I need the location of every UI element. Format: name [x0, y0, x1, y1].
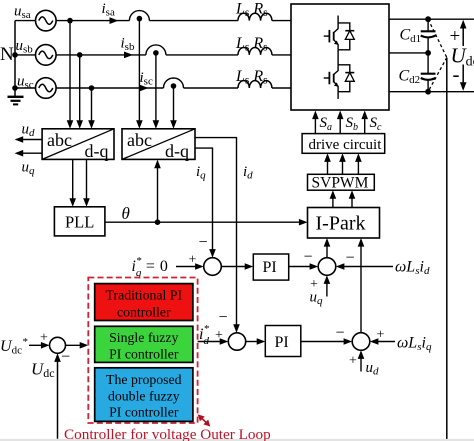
wire S3 to PI2	[246, 338, 266, 345]
inductor L_s R_s phase a label	[235, 1, 268, 20]
current sensor phase b	[146, 45, 166, 56]
svg-text:−: −	[304, 249, 313, 266]
junction dot theta	[155, 219, 161, 225]
label + (ud)	[349, 354, 357, 369]
label i_q* = 0	[132, 255, 168, 279]
wire PI2 to summer S4	[301, 338, 352, 345]
block traditional PI controller	[95, 284, 193, 321]
label u_d (S4)	[366, 360, 380, 378]
wire phase b	[56, 54, 291, 56]
wire theta line	[105, 219, 308, 226]
junction node c voltage tap	[89, 85, 95, 91]
capacitor Cd2	[421, 53, 436, 92]
svg-text:SVPWM: SVPWM	[312, 174, 369, 191]
inductor coil phase a	[238, 13, 272, 20]
wire iqref to summer	[176, 263, 204, 270]
PI block PI2	[265, 326, 301, 357]
wire idref to summer	[198, 338, 229, 345]
wire I-Park to SVPWM arrows	[330, 190, 356, 207]
svg-text:double fuzzy: double fuzzy	[108, 389, 180, 404]
capacitor Cd2 label	[399, 68, 421, 87]
svg-text:θ: θ	[122, 204, 130, 223]
node N label	[0, 44, 14, 65]
current sensor phase c	[164, 78, 184, 89]
I-Park block	[308, 208, 380, 239]
svg-text:abc: abc	[127, 130, 152, 150]
label - (PI1 out)	[304, 249, 313, 266]
controller dashed box	[88, 278, 197, 424]
wire phase a	[56, 20, 291, 22]
dashed sense link	[428, 19, 447, 92]
wire SVPWM to drive arrows	[324, 153, 362, 174]
abc/d-q block U2 (current)	[122, 129, 195, 161]
abc/d-q block U1 (voltage)	[42, 129, 114, 161]
svg-text:The proposed: The proposed	[106, 372, 182, 387]
label wLsiq	[397, 335, 432, 354]
label + (iqref)	[189, 253, 197, 268]
current i_sc label	[140, 70, 153, 88]
svg-text:PI controller: PI controller	[109, 347, 179, 362]
wire U1 to PLL left	[69, 159, 76, 206]
current i_sc arrow	[140, 85, 149, 92]
svg-text:drive circuit: drive circuit	[309, 137, 383, 153]
transistor T1 (upper IGBT)	[324, 16, 339, 50]
source u_sc label	[17, 73, 34, 91]
node N bus wire	[14, 21, 16, 97]
wire voltage tap b	[76, 55, 83, 129]
wire i_d from U2 to summer	[195, 138, 240, 333]
svg-text:controller: controller	[117, 305, 171, 320]
label U_dc (feedback)	[31, 360, 55, 381]
label u_d	[22, 122, 36, 140]
current i_sa arrow	[110, 17, 119, 24]
svg-text:−: −	[61, 349, 70, 366]
wire u_q output arrow	[15, 150, 42, 157]
wire current tap c	[170, 88, 177, 129]
label - (iq feedback)	[199, 234, 208, 251]
label theta	[122, 204, 130, 223]
label u_q	[22, 160, 36, 178]
inductor L_s R_s phase c label	[235, 68, 268, 87]
label S_c	[370, 115, 383, 133]
label i_d	[243, 164, 253, 182]
svg-text:PLL: PLL	[65, 213, 94, 232]
svg-text:d-q: d-q	[165, 141, 189, 161]
wire S2 up to I-Park	[324, 238, 331, 258]
summer S2	[318, 258, 336, 276]
AC source b	[15, 45, 56, 66]
summer S1	[204, 258, 222, 276]
wire midpoint of leg	[337, 50, 339, 65]
diode D1 (upper)	[338, 23, 354, 50]
svg-text:−: −	[346, 250, 355, 267]
label + (idref)	[215, 328, 223, 343]
wire drive to converter arrows	[312, 111, 368, 134]
svg-text:−: −	[336, 325, 345, 342]
svg-text:PI: PI	[275, 334, 289, 351]
summer S4	[352, 333, 370, 351]
label + (wLsiq)	[377, 328, 385, 343]
wire S5 to controller	[66, 342, 89, 349]
label - (wLsid)	[346, 250, 355, 267]
label i_d*	[199, 323, 209, 347]
wire DC- rail	[389, 91, 474, 93]
diode D2 (lower)	[338, 65, 354, 92]
wire wLsiq to S4	[370, 338, 395, 345]
PI block PI1	[253, 254, 288, 280]
wire U1 to PLL right	[83, 159, 90, 206]
source u_sa label	[14, 4, 31, 22]
svg-text:+: +	[215, 328, 223, 343]
wire S4 up to I-Park	[358, 238, 365, 333]
label - (Udc feedback)	[61, 349, 70, 366]
wire u_d into S4	[358, 350, 365, 371]
current sensor phase a	[129, 11, 149, 22]
svg-text:PI: PI	[263, 259, 277, 276]
wire bottom feedback (clipped at image edge)	[0, 439, 474, 441]
svg-text:−: −	[199, 234, 208, 251]
inductor coil phase c	[238, 81, 272, 88]
converter box	[291, 4, 389, 110]
block double fuzzy PI controller	[95, 368, 193, 422]
svg-text:Single fuzzy: Single fuzzy	[109, 330, 178, 345]
junction dot N phase b	[12, 52, 18, 58]
label wLsid	[395, 259, 430, 278]
wire PI1 to summer S2	[289, 263, 319, 270]
wire Udc feedback up into S5	[54, 353, 61, 439]
wire phase c	[56, 87, 291, 89]
svg-text:+: +	[349, 354, 357, 369]
summer S5	[50, 337, 66, 353]
source u_sb label	[16, 38, 34, 56]
caption Controller for voltage Outer Loop	[64, 426, 271, 441]
wire S1 to PI1	[221, 263, 253, 270]
junction dot DC-	[425, 89, 431, 95]
ground	[8, 97, 24, 105]
wire theta to U2 arrow	[154, 160, 161, 223]
svg-text:PI controller: PI controller	[109, 405, 179, 420]
current i_sb arrow	[124, 52, 133, 59]
capacitor Cd1	[421, 19, 436, 53]
label + (Udc top)	[450, 26, 461, 47]
inductor L_s R_s phase b label	[235, 35, 268, 54]
junction dot DC mid	[425, 50, 431, 56]
wire current tap b	[153, 55, 160, 129]
label i_q	[196, 164, 206, 182]
junction node b voltage tap	[77, 52, 83, 58]
wire Udc feedback down right side	[446, 58, 448, 440]
svg-text:N: N	[0, 44, 14, 65]
wire DC mid rail	[389, 52, 428, 54]
wire DC+ rail	[389, 18, 474, 20]
svg-text:I-Park: I-Park	[316, 213, 366, 235]
junction dot DC+	[425, 16, 431, 22]
label - (Udc bottom)	[453, 62, 460, 86]
svg-text:Traditional PI: Traditional PI	[106, 288, 183, 303]
label U_dc*	[0, 336, 28, 357]
summer S3	[228, 333, 245, 350]
wire i_q from U2 to summer	[195, 148, 216, 258]
junction node a voltage tap	[67, 18, 73, 24]
current i_sa label	[102, 1, 115, 19]
svg-text:d-q: d-q	[85, 141, 109, 161]
inductor coil phase b	[238, 48, 272, 55]
label u_q (S2)	[310, 290, 324, 308]
wire emitter stub lower	[337, 92, 339, 99]
Udc measure arrow down	[460, 65, 467, 91]
block single fuzzy PI controller	[95, 326, 193, 362]
svg-text:Controller for voltage Outer L: Controller for voltage Outer Loop	[64, 426, 271, 441]
label U_dc (right)	[451, 44, 474, 70]
wire current tap a	[136, 21, 143, 129]
wire voltage tap c	[88, 88, 95, 129]
AC source a	[15, 10, 56, 31]
svg-text:+: +	[40, 331, 48, 346]
label + (uq)	[310, 277, 318, 292]
label - (PI2 out)	[336, 325, 345, 342]
svg-text:+: +	[189, 253, 197, 268]
capacitor Cd1 label	[400, 27, 422, 46]
SVPWM block	[308, 174, 375, 191]
wire wLsid to S2	[336, 263, 393, 270]
label - (id feedback)	[219, 309, 228, 326]
wire voltage tap a	[67, 21, 74, 129]
junction dot bus phase c	[12, 85, 18, 91]
wire Udcref to summer	[29, 342, 50, 349]
label + (Udcref)	[40, 331, 48, 346]
PLL block	[54, 207, 105, 236]
label S_b	[346, 115, 359, 133]
svg-text:−: −	[219, 309, 228, 326]
drive circuit block	[302, 134, 385, 154]
red callout double arrow	[198, 414, 211, 426]
transistor T2 (lower IGBT)	[324, 65, 339, 92]
current i_sb label	[121, 36, 135, 54]
wire u_q into S2	[324, 275, 331, 296]
label S_a	[320, 115, 333, 133]
Udc measure arrow up	[460, 20, 467, 46]
AC source c	[15, 78, 56, 99]
wire u_d output arrow	[15, 136, 42, 143]
svg-text:abc: abc	[47, 130, 72, 150]
svg-text:-: -	[453, 62, 460, 86]
